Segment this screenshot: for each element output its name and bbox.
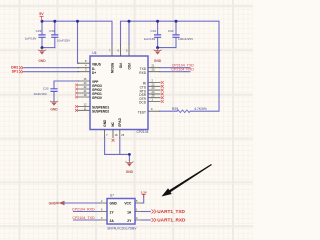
svg-text:GND: GND [126, 170, 134, 174]
svg-text:RXD: RXD [139, 71, 146, 75]
svg-text:NC: NC [111, 121, 115, 126]
svg-text:1uF/16V: 1uF/16V [144, 37, 157, 41]
svg-text:C32: C32 [168, 29, 174, 33]
svg-text:UART1_TXD: UART1_TXD [157, 209, 185, 214]
svg-text:GND: GND [154, 59, 162, 63]
svg-text:VCC: VCC [124, 201, 132, 205]
svg-text:SN74LVC2G17DBV: SN74LVC2G17DBV [107, 227, 137, 231]
svg-text:10uF/25V: 10uF/25V [57, 39, 71, 43]
svg-text:1uF/16V: 1uF/16V [25, 37, 38, 41]
svg-text:GPIO2: GPIO2 [92, 88, 102, 92]
svg-text:3.3V: 3.3V [141, 190, 147, 194]
svg-text:GPIO3: GPIO3 [92, 84, 102, 88]
svg-text:CP2104: CP2104 [137, 130, 149, 134]
svg-text:D+: D+ [92, 71, 96, 75]
svg-text:CP2104_RXD: CP2104_RXD [171, 67, 194, 71]
svg-text:CP2104_TXD: CP2104_TXD [172, 63, 195, 67]
svg-text:GND: GND [110, 201, 118, 205]
svg-text:VIO: VIO [118, 63, 122, 69]
svg-text:U7: U7 [110, 193, 114, 197]
svg-text:GPIO1: GPIO1 [92, 92, 102, 96]
svg-text:GPIO0: GPIO0 [92, 96, 102, 100]
svg-text:GND: GND [38, 59, 46, 63]
svg-text:1A: 1A [127, 210, 132, 214]
svg-text:D-: D- [92, 67, 95, 71]
svg-text:GND: GND [103, 119, 107, 127]
svg-text:DM1: DM1 [11, 65, 18, 69]
svg-text:C29: C29 [36, 29, 42, 33]
svg-text:TXD: TXD [140, 67, 147, 71]
svg-text:REGIN: REGIN [110, 63, 114, 74]
svg-text:TEST: TEST [138, 110, 146, 114]
svg-text:2A: 2A [110, 219, 115, 223]
svg-text:CP2104_TXD: CP2104_TXD [72, 216, 95, 220]
svg-text:DP1: DP1 [12, 69, 19, 73]
svg-text:VDD: VDD [127, 63, 131, 70]
svg-text:SUSPEND2: SUSPEND2 [92, 110, 109, 114]
svg-text:CP2104_RXD: CP2104_RXD [72, 207, 95, 211]
svg-text:UART1_RXD: UART1_RXD [157, 218, 186, 223]
svg-text:C33: C33 [43, 87, 49, 91]
svg-text:EPAD: EPAD [118, 117, 122, 126]
svg-text:10nF/16V: 10nF/16V [33, 92, 47, 96]
svg-text:C30: C30 [49, 29, 55, 33]
svg-text:GND: GND [49, 201, 57, 205]
svg-text:VPP: VPP [92, 80, 99, 84]
svg-text:5V: 5V [39, 12, 44, 16]
svg-text:U4: U4 [92, 51, 96, 55]
svg-text:4.7K/5%: 4.7K/5% [194, 107, 207, 111]
svg-text:DCD: DCD [139, 101, 147, 105]
svg-text:100nF/25V: 100nF/25V [178, 37, 194, 41]
svg-text:R29: R29 [172, 107, 178, 111]
svg-text:C31: C31 [151, 29, 157, 33]
svg-text:VBUS: VBUS [92, 62, 101, 66]
svg-text:GND: GND [50, 107, 58, 111]
